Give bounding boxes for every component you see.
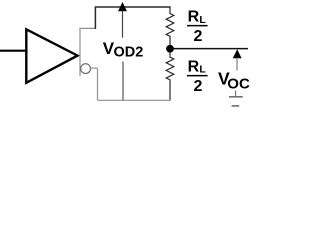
svg-text:L: L xyxy=(199,14,206,26)
wire step stub xyxy=(79,27,95,29)
wire top xyxy=(95,6,171,8)
svg-text:2: 2 xyxy=(194,28,203,45)
wire node right xyxy=(170,48,248,50)
wire bubble right xyxy=(91,67,98,69)
svg-text:R: R xyxy=(188,58,200,75)
node xyxy=(166,45,174,53)
arrow VOC up xyxy=(233,49,242,58)
svg-text:L: L xyxy=(199,64,206,76)
svg-text:2: 2 xyxy=(194,78,203,95)
resistor RL/2 top xyxy=(166,7,174,46)
bubble xyxy=(81,64,91,74)
resistor RL/2 bottom xyxy=(166,52,174,100)
wire step vertical xyxy=(94,7,96,29)
wire output bus xyxy=(79,28,81,76)
arrow VOD2 up xyxy=(118,2,127,11)
ground xyxy=(229,96,243,98)
svg-text:OD2: OD2 xyxy=(114,45,144,61)
wire input xyxy=(0,50,26,52)
svg-text:R: R xyxy=(188,9,200,26)
wire bottom xyxy=(98,99,171,101)
svg-text:OC: OC xyxy=(227,75,250,92)
wire inverted vertical xyxy=(97,68,99,100)
driver U1 xyxy=(26,29,77,83)
wire VOD2 lower tail xyxy=(122,62,124,101)
wire ground lead xyxy=(235,91,237,97)
